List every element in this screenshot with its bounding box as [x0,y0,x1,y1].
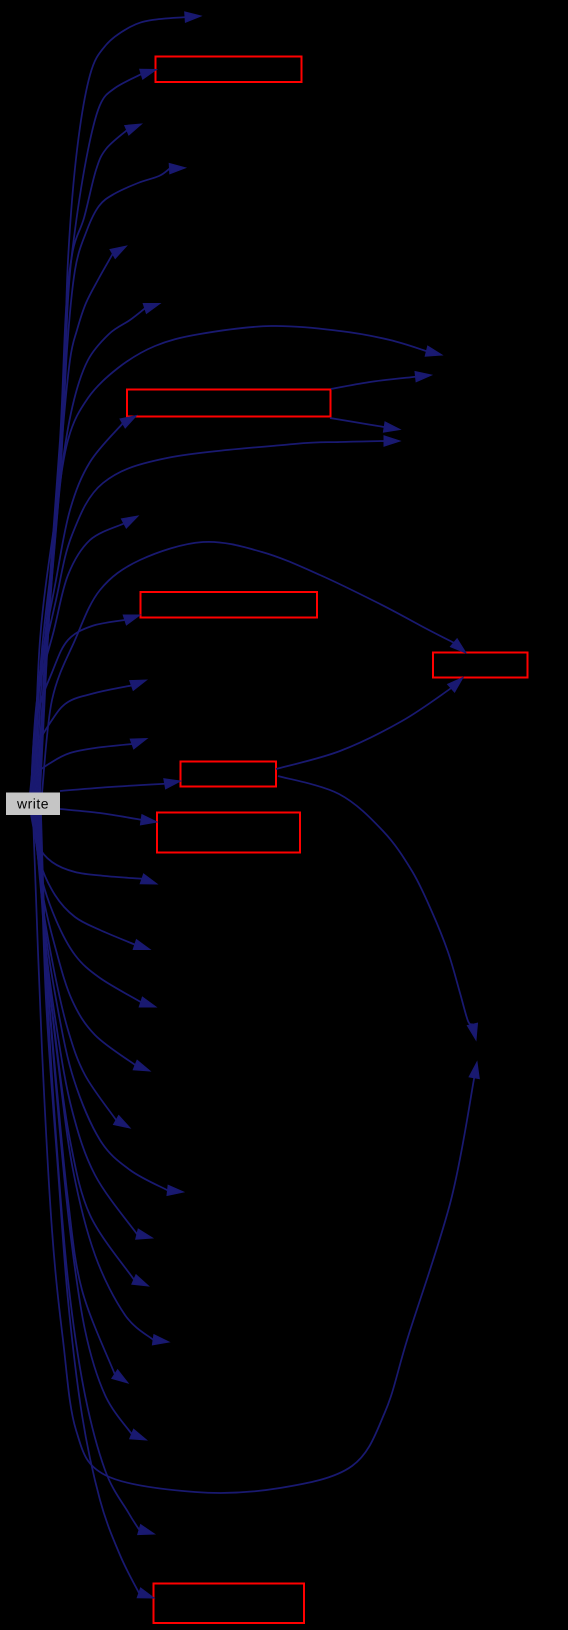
node box7 [154,1584,305,1624]
edge write->box4 [42,542,454,793]
edge write->d7 [37,815,137,1234]
node box6 [157,813,300,853]
edge box5->n16 [278,776,472,1024]
node box3 [141,592,318,618]
edge write->d5 [35,815,116,1120]
edge write->box5 [60,784,165,791]
edge write->d3 [33,815,141,1002]
edge write->d1 [31,815,142,879]
edge write->d8 [38,815,134,1280]
edge write->n9 [32,441,384,793]
edge write->n5 [36,254,113,793]
edge write->d11 [40,815,132,1434]
edge box5->box4 [276,688,451,769]
edge write->box2 [33,424,123,794]
edge write->n15 [33,815,474,1493]
edge write->d12 [41,815,139,1530]
edge box2->a [331,377,416,389]
edge write->box1 [39,74,141,793]
edge box2->b [330,418,384,427]
node box5 [181,762,277,787]
edge write->d4 [34,815,135,1065]
edge write->n3 [38,130,127,793]
svg-text:write: write [16,796,49,812]
edge write->d2 [32,815,135,945]
edge write->n10 [31,524,124,794]
edge write->d9 [39,815,153,1340]
edge write->n13 [30,686,132,794]
edge write->n14 [30,744,132,793]
edge write->d6 [36,815,168,1190]
edge write->n1 [40,17,185,793]
node box1 [156,57,302,83]
edge write->d10 [39,815,115,1374]
node write [6,793,60,816]
node box2 [127,390,331,417]
edge write->n4 [37,169,170,793]
edge write->box3 [31,620,125,793]
edge write->box7 [40,815,139,1593]
edge write->box6 [60,809,141,820]
edge write->n7 [34,326,427,793]
node box4 [433,653,528,678]
edge write->n6 [35,308,145,793]
